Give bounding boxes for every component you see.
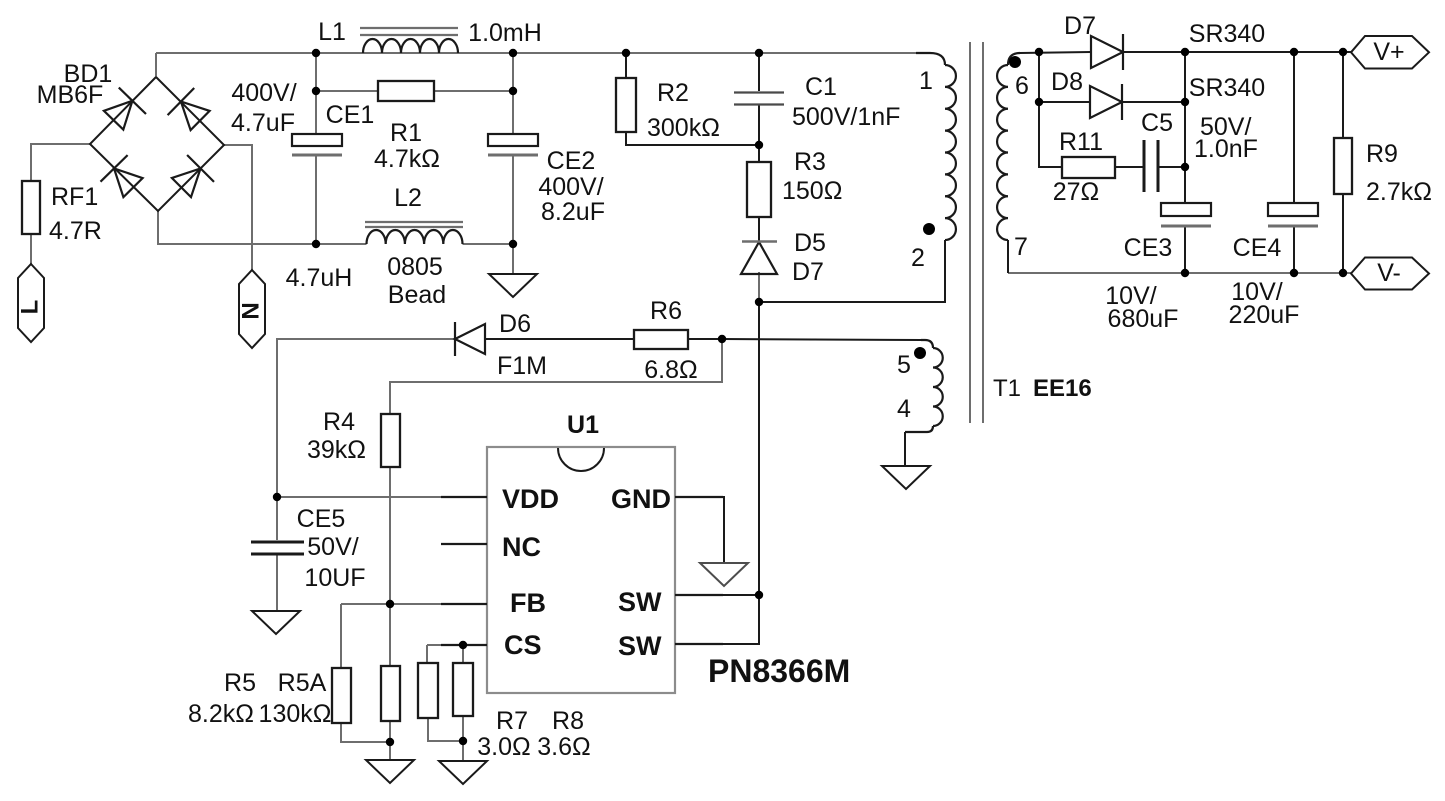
wire R8 bottom — [462, 716, 464, 741]
svg-text:680uF: 680uF — [1108, 305, 1179, 333]
junction at 722,339 — [718, 335, 726, 343]
resistor R9 — [1334, 138, 1432, 206]
wire CE3 bottom stub — [1184, 226, 1186, 273]
svg-text:F1M: F1M — [497, 352, 547, 380]
svg-text:PN8366M: PN8366M — [708, 653, 850, 689]
svg-text:V+: V+ — [1373, 38, 1404, 66]
svg-text:500V/1nF: 500V/1nF — [792, 103, 900, 131]
svg-text:7: 7 — [1014, 233, 1028, 261]
port V- — [1351, 258, 1429, 290]
wire CS row — [427, 644, 487, 646]
svg-text:R5: R5 — [224, 669, 256, 697]
wire R2 top stub — [625, 53, 627, 78]
capacitor CE4 — [1229, 203, 1318, 329]
wire CE2 ground stub — [512, 244, 514, 274]
svg-text:6.8Ω: 6.8Ω — [644, 356, 697, 384]
junction at 316,244 — [312, 240, 320, 248]
svg-text:VDD: VDD — [502, 484, 559, 514]
svg-text:SR340: SR340 — [1189, 20, 1265, 48]
wire R4 top path — [390, 339, 722, 414]
svg-text:400V/: 400V/ — [538, 173, 603, 201]
wire CE2 column lower — [512, 155, 514, 244]
svg-text:2.7kΩ: 2.7kΩ — [1366, 178, 1432, 206]
svg-text:Bead: Bead — [388, 281, 446, 309]
inductor L2 — [286, 184, 463, 309]
capacitor CE2 — [488, 134, 605, 226]
wire C1 top stub — [758, 53, 760, 91]
junction at 1343,52 — [1339, 48, 1347, 56]
wire FB node to R5A — [389, 604, 391, 666]
svg-text:4: 4 — [897, 395, 911, 423]
svg-text:300kΩ: 300kΩ — [647, 114, 720, 142]
svg-text:SW: SW — [618, 587, 662, 617]
fusible resistor RF1 — [22, 181, 102, 245]
wire D8 to node — [1123, 101, 1185, 103]
wire bridge top stub — [155, 53, 157, 77]
wire R1 row left — [316, 90, 378, 92]
capacitor CE1 — [231, 79, 374, 155]
svg-text:0805: 0805 — [387, 253, 443, 281]
svg-text:CE5: CE5 — [297, 505, 346, 533]
junction at 626,53 — [622, 49, 630, 57]
svg-text:R7: R7 — [496, 707, 528, 735]
capacitor CE3 — [1105, 203, 1211, 333]
svg-text:RF1: RF1 — [51, 183, 98, 211]
wire D6 cathode to VDD column — [277, 339, 455, 497]
wire CE4 bottom stub — [1293, 226, 1295, 273]
junction at 759,145 — [755, 141, 763, 149]
wire R4 to FB node — [389, 467, 391, 604]
wire CE4 top stub — [1293, 52, 1295, 203]
wire SW riser — [758, 302, 760, 595]
svg-text:CE2: CE2 — [547, 147, 596, 175]
wire D8 branch — [1039, 52, 1090, 102]
svg-text:C5: C5 — [1141, 109, 1173, 137]
resistor R3 — [747, 148, 842, 217]
wire SW1 stub — [675, 594, 759, 596]
svg-text:L: L — [16, 300, 43, 315]
wire L input — [31, 144, 90, 181]
svg-text:10UF: 10UF — [304, 564, 365, 592]
svg-text:GND: GND — [611, 484, 671, 514]
junction at 759,302 — [755, 298, 763, 306]
svg-text:R4: R4 — [323, 408, 355, 436]
diode D6 — [455, 310, 547, 380]
pin N — [237, 270, 265, 348]
svg-text:R5A: R5A — [278, 669, 327, 697]
resistor R11 — [1053, 128, 1115, 206]
svg-text:U1: U1 — [567, 411, 599, 439]
svg-text:SW: SW — [618, 631, 662, 661]
wire CE1 column lower — [315, 155, 317, 244]
wire R7 ground stub — [462, 741, 464, 761]
svg-text:150Ω: 150Ω — [782, 177, 842, 205]
svg-text:1.0nF: 1.0nF — [1194, 135, 1258, 163]
junction at 1185,102 — [1181, 98, 1189, 106]
wire bottom rail right — [463, 243, 514, 245]
wire VDD row — [277, 496, 487, 498]
capacitor CE5 — [251, 505, 366, 592]
svg-text:MB6F: MB6F — [37, 81, 104, 109]
svg-text:4.7uH: 4.7uH — [286, 264, 353, 292]
svg-text:FB: FB — [510, 588, 546, 618]
wire CE3 column — [1184, 52, 1186, 203]
svg-text:L1: L1 — [318, 18, 346, 46]
wire R1 row right — [434, 90, 513, 92]
junction at 513,53 — [509, 49, 517, 57]
svg-text:D7: D7 — [792, 258, 824, 286]
wire R11 to C5 — [1115, 166, 1144, 168]
wire node to aux winding — [722, 339, 921, 340]
wire R5 bottom — [341, 723, 390, 742]
svg-text:2: 2 — [911, 244, 925, 272]
svg-text:3.0Ω: 3.0Ω — [477, 733, 530, 761]
wire D6 anode row — [486, 338, 634, 340]
inductor L1 — [318, 18, 542, 53]
svg-text:N: N — [237, 302, 264, 319]
junction at 1294,52 — [1290, 48, 1298, 56]
ground CE5 — [252, 611, 300, 634]
port V+ — [1351, 36, 1429, 69]
svg-text:3.6Ω: 3.6Ω — [537, 733, 590, 761]
junction at 316,91 — [312, 87, 320, 95]
phase dot aux — [914, 347, 926, 359]
junction at 277,497 — [273, 493, 281, 501]
wire D7 to V+ rail — [1124, 51, 1352, 53]
junction at 463,741 — [459, 737, 467, 745]
svg-text:D7: D7 — [1064, 12, 1096, 40]
svg-text:CE1: CE1 — [326, 101, 375, 129]
svg-text:4.7kΩ: 4.7kΩ — [374, 145, 440, 173]
svg-text:1: 1 — [919, 67, 933, 95]
junction at 759,53 — [755, 49, 763, 57]
svg-text:R8: R8 — [552, 707, 584, 735]
ground R5 — [366, 760, 414, 783]
junction at 316,53 — [312, 49, 320, 57]
svg-text:5: 5 — [897, 351, 911, 379]
wire R6 to node — [688, 338, 722, 340]
svg-text:6: 6 — [1015, 72, 1029, 100]
svg-text:D8: D8 — [1051, 68, 1083, 96]
junction at 1294,273 — [1290, 269, 1298, 277]
junction at 1185,273 — [1181, 269, 1189, 277]
wire RF1 to L pin — [30, 234, 32, 264]
pin L — [16, 264, 44, 342]
wire CE1 column upper — [315, 53, 317, 134]
wire NC stub — [441, 543, 487, 545]
junction at 1343,273 — [1339, 269, 1347, 277]
wire R11 branch — [1039, 102, 1062, 167]
wire D5 to node — [758, 272, 760, 302]
svg-text:4.7uF: 4.7uF — [231, 109, 295, 137]
capacitor C5 — [1141, 109, 1258, 192]
wire V- rail — [1008, 272, 1352, 274]
svg-text:D5: D5 — [794, 229, 826, 257]
svg-text:L2: L2 — [394, 184, 422, 212]
bridge rectifier BD1 diamond — [37, 60, 224, 211]
junction at 463,645 — [459, 641, 467, 649]
transformer core — [970, 42, 1092, 423]
wire R3 to D5 — [758, 217, 760, 241]
junction at 1039,52 — [1035, 48, 1043, 56]
transformer T1 primary winding — [911, 53, 956, 272]
wire R5 ground stub — [389, 742, 391, 760]
svg-text:R3: R3 — [794, 148, 826, 176]
diode D5 — [741, 229, 826, 286]
wire R7 bottom — [428, 718, 463, 741]
resistor R8 — [453, 663, 591, 761]
wire R9 bottom stub — [1342, 194, 1344, 273]
ground aux winding — [882, 466, 930, 489]
capacitor C1 — [734, 73, 900, 131]
resistor R6 — [634, 297, 698, 384]
wire VDD column to CE5 — [276, 497, 278, 540]
transformer T1 aux winding — [897, 340, 943, 432]
wire secondary bottom — [1007, 240, 1009, 273]
svg-text:130kΩ: 130kΩ — [259, 700, 332, 728]
junction at 390,604 — [386, 600, 394, 608]
resistor R5 — [188, 668, 351, 728]
svg-text:1.0mH: 1.0mH — [468, 19, 542, 47]
ground U1 GND — [700, 563, 748, 586]
svg-text:SR340: SR340 — [1189, 74, 1265, 102]
phase dot secondary — [1009, 56, 1021, 68]
wire C1 to R3 — [758, 105, 760, 162]
svg-text:R6: R6 — [650, 297, 682, 325]
svg-text:8.2kΩ: 8.2kΩ — [188, 700, 254, 728]
wire R7 leg — [426, 645, 428, 663]
junction at 390,742 — [386, 738, 394, 746]
phase dot primary — [923, 223, 935, 235]
wire R8 leg — [462, 645, 464, 663]
svg-text:C1: C1 — [805, 73, 837, 101]
junction at 1185,167 — [1181, 163, 1189, 171]
svg-text:T1: T1 — [993, 375, 1021, 402]
wire N input — [224, 145, 252, 270]
svg-text:CE3: CE3 — [1124, 234, 1173, 262]
diode D7 — [1064, 12, 1265, 70]
svg-text:50V/: 50V/ — [307, 533, 358, 561]
wire GND pin to ground — [675, 497, 724, 563]
svg-text:R9: R9 — [1366, 140, 1398, 168]
junction at 1039,102 — [1035, 98, 1043, 106]
svg-text:R1: R1 — [390, 119, 422, 147]
resistor R4 — [307, 408, 400, 467]
wire FB row — [341, 603, 487, 605]
ground R7 — [439, 761, 487, 784]
svg-text:CS: CS — [504, 630, 542, 660]
resistor R1 — [374, 81, 440, 173]
wire C5 to node — [1158, 166, 1185, 168]
svg-text:R11: R11 — [1059, 128, 1103, 156]
wire primary return — [759, 240, 945, 302]
wire CE2 column upper — [512, 53, 514, 134]
junction at 513,91 — [509, 87, 517, 95]
junction at 513,244 — [509, 240, 517, 248]
junction at 1185,52 — [1181, 48, 1189, 56]
resistor R5A — [259, 666, 400, 728]
transformer T1 secondary winding — [997, 53, 1029, 261]
wire R5A bottom — [389, 721, 391, 742]
wire aux ground — [904, 432, 906, 466]
svg-text:V-: V- — [1377, 259, 1401, 287]
svg-text:4.7R: 4.7R — [49, 217, 102, 245]
op-amp U1 PN8366M chip — [487, 411, 850, 693]
wire R9 top stub — [1342, 52, 1344, 138]
ground CE2 — [489, 274, 537, 297]
wire CE5 ground stub — [276, 555, 278, 611]
wire top DC+ rail — [156, 52, 930, 54]
wire secondary to D7 — [1020, 52, 1091, 53]
wire R5 leg — [340, 604, 342, 668]
wire bottom rail left — [158, 211, 367, 244]
junction at 759,595 — [755, 591, 763, 599]
resistor R2 — [616, 78, 720, 142]
svg-text:EE16: EE16 — [1033, 375, 1092, 402]
svg-text:8.2uF: 8.2uF — [541, 198, 605, 226]
svg-text:220uF: 220uF — [1229, 301, 1300, 329]
svg-text:39kΩ: 39kΩ — [307, 436, 366, 464]
svg-text:CE4: CE4 — [1233, 234, 1282, 262]
wire R2 bottom jog — [626, 132, 759, 145]
op-amp U1 pin stubs — [441, 497, 723, 645]
svg-text:27Ω: 27Ω — [1053, 178, 1100, 206]
svg-text:R2: R2 — [657, 79, 689, 107]
svg-text:D6: D6 — [499, 310, 531, 338]
wire SW riser lower — [675, 595, 759, 644]
svg-text:NC: NC — [502, 532, 541, 562]
svg-text:400V/: 400V/ — [231, 79, 296, 107]
diode D8 — [1051, 68, 1265, 120]
resistor R7 — [418, 663, 531, 761]
